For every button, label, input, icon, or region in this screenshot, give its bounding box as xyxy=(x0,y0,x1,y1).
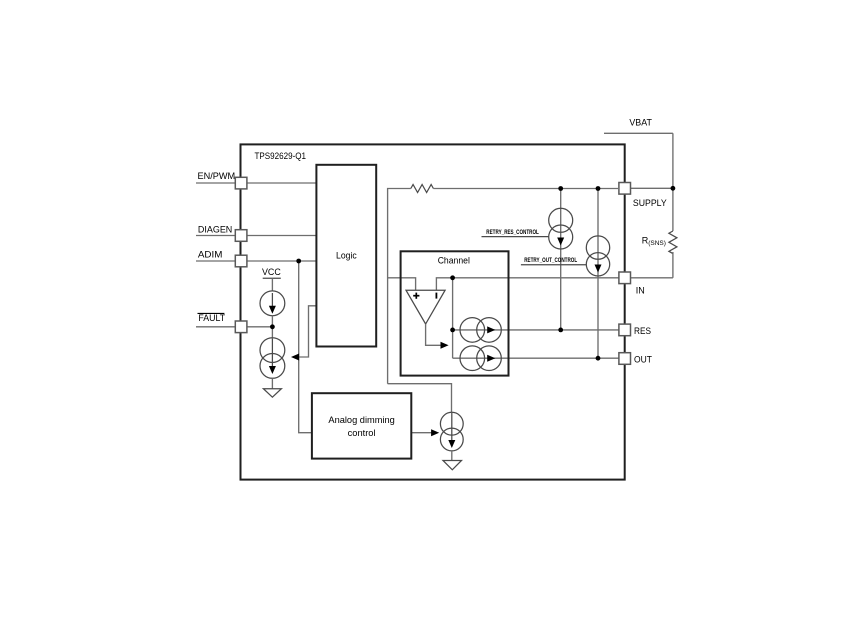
svg-text:Channel: Channel xyxy=(438,256,470,266)
svg-text:TPS92629-Q1: TPS92629-Q1 xyxy=(255,151,307,162)
svg-text:EN/PWM: EN/PWM xyxy=(198,171,236,182)
svg-text:Logic: Logic xyxy=(336,251,357,262)
svg-text:OUT: OUT xyxy=(634,355,652,365)
svg-text:RETRY_OUT_CONTROL: RETRY_OUT_CONTROL xyxy=(524,257,577,264)
svg-text:VCC: VCC xyxy=(262,267,281,277)
svg-text:FAULT: FAULT xyxy=(198,313,225,324)
svg-text:SUPPLY: SUPPLY xyxy=(633,198,667,208)
svg-text:DIAGEN: DIAGEN xyxy=(198,224,233,235)
svg-text:RES: RES xyxy=(634,326,651,336)
svg-text:control: control xyxy=(348,428,376,438)
svg-text:RETRY_RES_CONTROL: RETRY_RES_CONTROL xyxy=(486,229,539,236)
svg-text:ADIM: ADIM xyxy=(198,250,223,261)
svg-text:IN: IN xyxy=(636,285,645,295)
svg-text:VBAT: VBAT xyxy=(629,117,652,127)
svg-text:Analog dimming: Analog dimming xyxy=(328,415,394,425)
